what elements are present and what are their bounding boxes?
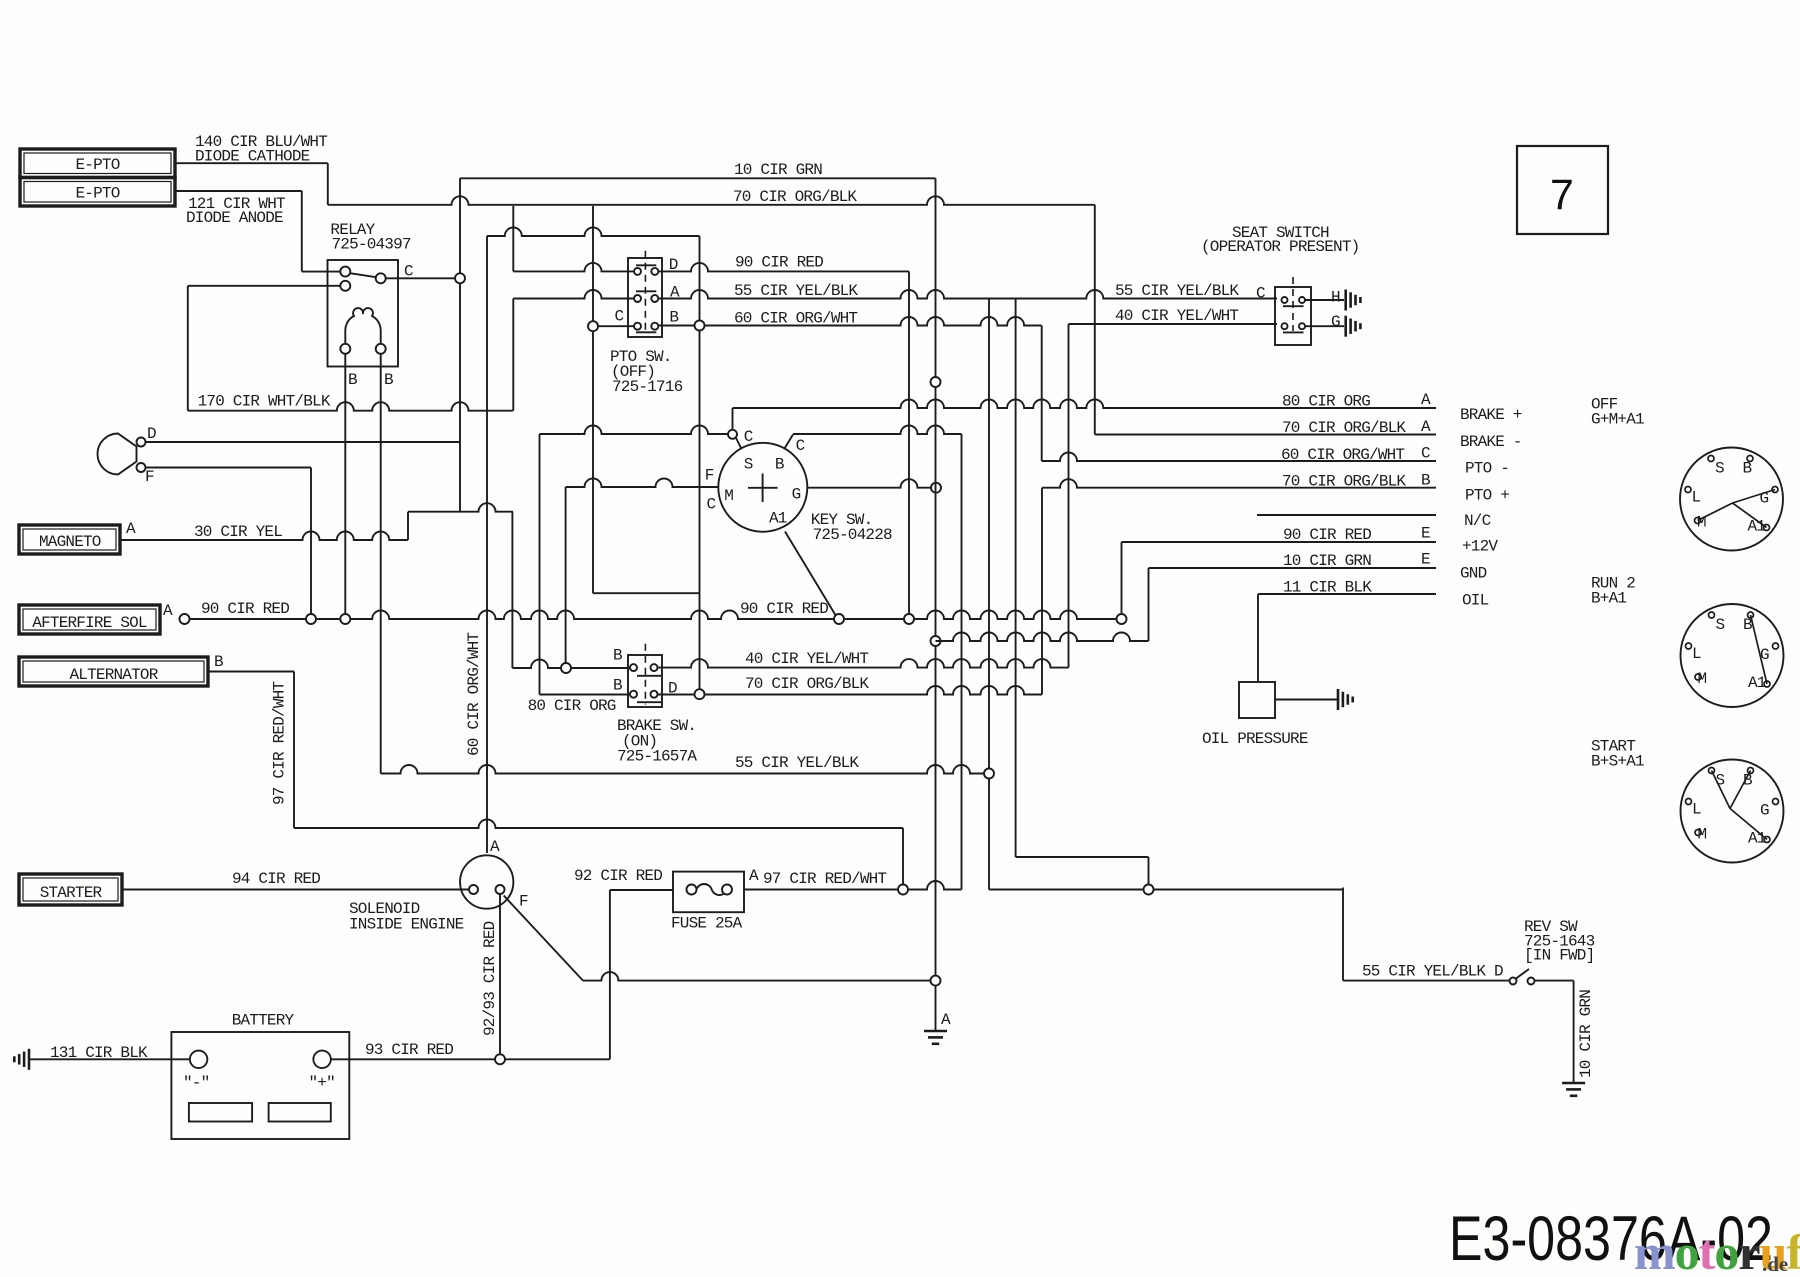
junction brake D xyxy=(695,689,705,699)
svg-text:DIODE ANODE: DIODE ANODE xyxy=(186,209,283,227)
brake SW terminal D bottom-right xyxy=(651,691,658,698)
svg-text:70 CIR ORG/BLK: 70 CIR ORG/BLK xyxy=(733,188,857,206)
terminal diode F xyxy=(137,463,146,472)
relay terminal NO xyxy=(340,281,350,291)
key A1 diagonal to 90 CIR RED xyxy=(785,532,836,617)
wire relay B right down to 55 CIR YEL/BLK xyxy=(380,354,382,774)
svg-text:C: C xyxy=(1421,445,1430,463)
brake contact bar top xyxy=(637,675,661,677)
connector AFTERFIRE SOL xyxy=(19,605,160,634)
svg-text:C: C xyxy=(796,437,805,455)
relay switch blade xyxy=(350,273,376,277)
svg-text:(OPERATOR PRESENT): (OPERATOR PRESENT) xyxy=(1201,238,1359,256)
svg-text:A: A xyxy=(1421,391,1431,409)
wire 97 CIR RED/WHT vertical xyxy=(293,672,295,829)
svg-text:S: S xyxy=(744,456,753,474)
wire 10 CIR GRN bus xyxy=(936,633,1149,642)
wire 55 CIR YEL/BLK lower bus xyxy=(381,765,984,774)
wire to rev switch xyxy=(1343,980,1509,982)
wire key M drop xyxy=(565,487,567,663)
fuse 25A box xyxy=(673,872,744,913)
svg-text:60 CIR ORG/WHT: 60 CIR ORG/WHT xyxy=(465,633,483,756)
wire 97 CIR RED/WHT horizontal xyxy=(294,820,903,829)
svg-text:90 CIR RED: 90 CIR RED xyxy=(740,600,828,618)
svg-text:A: A xyxy=(941,1011,951,1029)
junction 92/93 xyxy=(495,1054,505,1064)
wire vertical x961 xyxy=(961,434,963,890)
page number box xyxy=(1517,146,1608,234)
wire PTO D feed drop xyxy=(512,206,514,271)
svg-text:S: S xyxy=(1716,616,1725,634)
ground center bottom xyxy=(924,1030,947,1033)
wire 92/93 CIR RED vertical xyxy=(499,894,501,1055)
connector E-PTO (bottom) xyxy=(20,178,175,207)
relay 725-04397 box xyxy=(328,260,399,367)
junction ground A xyxy=(931,976,941,986)
wire diode D east xyxy=(146,441,461,443)
svg-text:M: M xyxy=(724,487,733,505)
relay coil terminal B right xyxy=(376,344,386,354)
relay coil terminal B left xyxy=(340,344,350,354)
svg-text:OIL: OIL xyxy=(1462,592,1489,610)
wire key C east segment xyxy=(793,426,962,435)
wire vertical x989 upper xyxy=(988,299,990,769)
wire 80 CIR ORG (BRAKE +) xyxy=(733,400,1437,409)
svg-text:+12V: +12V xyxy=(1462,538,1498,556)
wire magneto/M to brake switch xyxy=(512,660,634,669)
wire brake B lower feed xyxy=(540,694,635,696)
fuse terminal right xyxy=(722,885,732,895)
wire vertical x1042 lower (70 ORG/BLK) xyxy=(1041,488,1043,695)
wire relay lower terminal west leg xyxy=(188,285,341,287)
wire solenoid F diagonal xyxy=(504,896,583,981)
wire 40 CIR YEL/WHT bus xyxy=(658,659,1069,668)
svg-text:A: A xyxy=(1421,418,1431,436)
connector STARTER xyxy=(19,874,122,905)
svg-text:B: B xyxy=(775,456,784,474)
ground seat G xyxy=(1344,316,1347,337)
svg-text:70 CIR ORG/BLK: 70 CIR ORG/BLK xyxy=(745,675,869,693)
wire seat switch G row (40 CIR YEL/WHT) xyxy=(1069,323,1278,325)
svg-text:725-1716: 725-1716 xyxy=(612,378,683,396)
svg-text:97 CIR RED/WHT: 97 CIR RED/WHT xyxy=(271,682,289,805)
wire 92 CIR RED drop to battery feed xyxy=(609,890,611,1059)
junction x935 upper xyxy=(931,377,941,387)
svg-text:G+M+A1: G+M+A1 xyxy=(1591,411,1644,429)
junction 97 at x903 xyxy=(898,885,908,895)
wire 10 CIR GRN / ground vertical xyxy=(935,178,937,1031)
key switch 725-04228 body xyxy=(718,443,807,532)
wire to PTO SW D xyxy=(513,263,634,272)
key switch cross v xyxy=(762,474,764,503)
key C blade into circle xyxy=(736,438,741,449)
wire solenoid F to ground junction xyxy=(583,972,931,981)
svg-text:AFTERFIRE SOL: AFTERFIRE SOL xyxy=(32,614,147,632)
svg-text:[IN FWD]: [IN FWD] xyxy=(1524,947,1594,965)
svg-text:60 CIR ORG/WHT: 60 CIR ORG/WHT xyxy=(1281,446,1404,464)
wire vertical x593 xyxy=(592,206,594,593)
relay coil xyxy=(345,308,380,349)
svg-text:10 CIR GRN: 10 CIR GRN xyxy=(734,161,822,179)
wire 60 ORG/WHT row from PTO B xyxy=(658,317,1041,326)
svg-text:C: C xyxy=(615,308,624,326)
svg-text:B: B xyxy=(214,653,223,671)
wire vertical x1148 upper xyxy=(1148,568,1150,641)
svg-text:"-": "-" xyxy=(183,1074,209,1092)
svg-text:A: A xyxy=(163,602,173,620)
wire solenoid-A cross link xyxy=(487,228,700,237)
junction relay B on 90 CIR RED bus xyxy=(340,614,350,624)
svg-text:L: L xyxy=(1692,645,1701,663)
terminal key C xyxy=(728,430,737,439)
wire 60 CIR ORG/WHT (PTO -) xyxy=(1042,453,1436,462)
svg-text:OIL PRESSURE: OIL PRESSURE xyxy=(1202,730,1308,748)
wire 97 CIR RED/WHT east xyxy=(744,881,962,890)
svg-text:N/C: N/C xyxy=(1464,512,1491,530)
svg-text:E: E xyxy=(1421,525,1430,543)
svg-text:STARTER: STARTER xyxy=(40,884,103,902)
junction relay C xyxy=(455,273,465,283)
wire to PTO SW A xyxy=(513,290,634,298)
junction key G at x935 xyxy=(931,483,941,493)
seat switch terminal G xyxy=(1299,323,1305,329)
svg-text:C: C xyxy=(707,496,716,514)
svg-text:E: E xyxy=(1421,551,1430,569)
connector E-PTO (top) xyxy=(20,149,175,178)
svg-text:PTO -: PTO - xyxy=(1465,460,1509,478)
svg-text:80 CIR ORG: 80 CIR ORG xyxy=(528,697,616,715)
wire 55 CIR YEL/BLK drop to rev switch xyxy=(1342,888,1344,981)
wire 121 CIR WHT from E-PTO 2 xyxy=(175,190,302,192)
svg-text:E-PTO: E-PTO xyxy=(76,185,120,203)
seat contact bar bottom xyxy=(1283,331,1304,333)
connector MAGNETO xyxy=(19,525,120,554)
svg-text:93 CIR RED: 93 CIR RED xyxy=(365,1041,453,1059)
PTO SW terminal A right xyxy=(651,295,658,302)
wire diode F drop to 90 CIR RED xyxy=(310,468,312,615)
svg-text:A1: A1 xyxy=(1748,674,1766,692)
wire 30 CIR YEL step up xyxy=(407,512,409,540)
svg-text:D: D xyxy=(147,425,156,443)
svg-text:B: B xyxy=(613,647,622,665)
oil pressure switch box xyxy=(1239,682,1275,718)
wire brake to key C xyxy=(540,426,729,435)
wire 121 CIR WHT drop to relay xyxy=(301,191,303,272)
svg-text:90 CIR RED: 90 CIR RED xyxy=(1283,526,1371,544)
wire 30 CIR YEL upper segment xyxy=(408,503,513,512)
brake SW terminal B top-left xyxy=(630,664,637,671)
svg-text:B: B xyxy=(384,371,393,389)
junction diode F on 90 CIR RED bus xyxy=(306,614,316,624)
wire 30 CIR YEL xyxy=(120,532,408,541)
wire 55 link drop xyxy=(1148,857,1150,885)
svg-text:INSIDE ENGINE: INSIDE ENGINE xyxy=(349,916,464,934)
svg-text:10 CIR GRN: 10 CIR GRN xyxy=(1577,990,1595,1078)
svg-text:C: C xyxy=(744,428,753,446)
PTO SW terminal B left xyxy=(634,323,641,330)
svg-text:H: H xyxy=(1331,289,1340,307)
PTO contact bar D xyxy=(636,264,656,266)
wire 90 CIR RED (+12V) xyxy=(1122,541,1437,543)
svg-text:10 CIR GRN: 10 CIR GRN xyxy=(1283,552,1371,570)
battery plate right xyxy=(269,1103,331,1122)
battery box xyxy=(171,1032,349,1139)
PTO SW terminal A left xyxy=(634,295,641,302)
wire alternator B xyxy=(208,671,294,673)
solenoid terminal right xyxy=(496,885,505,894)
wire 11 CIR BLK drop to oil pressure xyxy=(1257,594,1259,682)
junction PTO C xyxy=(588,321,598,331)
wire vertical x699 xyxy=(699,236,701,695)
wire solenoid A vertical xyxy=(486,236,488,853)
seat switch box xyxy=(1275,287,1311,345)
wire diode F east xyxy=(146,467,312,469)
svg-text:A: A xyxy=(126,520,136,538)
svg-text:PTO +: PTO + xyxy=(1465,487,1509,505)
junction 55 bus to x989 xyxy=(984,769,994,779)
terminal diode D xyxy=(137,438,146,447)
svg-text:A: A xyxy=(749,867,759,885)
PTO SW terminal D left xyxy=(634,268,641,275)
ignition diagram RUN 2 xyxy=(1681,604,1784,707)
svg-text:170 CIR WHT/BLK: 170 CIR WHT/BLK xyxy=(198,393,331,411)
key switch cross h xyxy=(748,487,778,489)
wire 90 CIR RED bus xyxy=(190,611,1122,620)
svg-text:90 CIR RED: 90 CIR RED xyxy=(201,600,289,618)
svg-text:F: F xyxy=(145,468,154,486)
svg-text:725-04228: 725-04228 xyxy=(813,526,892,544)
wire seat H to ground xyxy=(1305,299,1344,301)
battery terminal minus xyxy=(190,1051,208,1069)
wire oil pressure to ground xyxy=(1275,699,1337,701)
brake switch 725-1657A box xyxy=(628,655,662,707)
solenoid terminal left xyxy=(469,885,478,894)
junction 10 CIR GRN bus xyxy=(931,636,941,646)
wire 55 CIR YEL/BLK to rev switch xyxy=(989,889,1343,891)
wire 10 CIR GRN top bus xyxy=(460,177,936,179)
svg-text:L: L xyxy=(1692,489,1701,507)
wire into relay terminal xyxy=(302,271,341,273)
wire vertical x1121 xyxy=(1121,542,1123,614)
svg-text:L: L xyxy=(1692,801,1701,819)
svg-text:55 CIR YEL/BLK: 55 CIR YEL/BLK xyxy=(734,282,858,300)
svg-text:725-1657A: 725-1657A xyxy=(617,748,697,766)
brake contact bar bottom xyxy=(637,701,661,703)
svg-text:G: G xyxy=(1331,313,1340,331)
ignition diagram START xyxy=(1681,760,1784,863)
wire 55 link upper xyxy=(1016,856,1149,858)
terminal afterfire A xyxy=(180,614,190,624)
wire 131 CIR BLK xyxy=(29,1058,190,1060)
svg-text:A1: A1 xyxy=(1748,830,1766,848)
svg-text:G: G xyxy=(792,486,801,504)
rev switch terminal left xyxy=(1510,978,1517,985)
svg-text:F: F xyxy=(705,467,714,485)
battery terminal plus xyxy=(313,1051,331,1069)
wire 92 CIR RED to fuse xyxy=(610,889,673,891)
svg-text:B: B xyxy=(613,677,622,695)
relay terminal NC xyxy=(340,267,350,277)
svg-text:F: F xyxy=(519,893,528,911)
connector ALTERNATOR xyxy=(19,657,208,686)
wire vertical x1094 xyxy=(1094,205,1096,435)
svg-text:A: A xyxy=(490,838,500,856)
svg-text:55 CIR YEL/BLK: 55 CIR YEL/BLK xyxy=(1115,282,1239,300)
wire vertical x1041 upper (60 ORG/WHT) xyxy=(1041,326,1043,462)
svg-text:.de: .de xyxy=(1762,1252,1788,1272)
wire vertical x989 lower xyxy=(988,779,990,890)
key B diagonal xyxy=(785,435,794,449)
wire brake-keyC vertical xyxy=(539,434,541,695)
svg-text:B: B xyxy=(669,309,678,327)
fuse terminal left xyxy=(687,885,697,895)
wire link 11 CIR BLK to x699 xyxy=(593,592,700,594)
svg-text:G: G xyxy=(1760,802,1769,820)
svg-text:60 CIR ORG/WHT: 60 CIR ORG/WHT xyxy=(734,310,857,328)
wire 90 CIR RED drop x909 xyxy=(908,271,910,614)
fuse element xyxy=(697,884,727,895)
seat contact bar top xyxy=(1283,305,1304,307)
svg-text:S: S xyxy=(1715,460,1724,478)
svg-text:55 CIR YEL/BLK: 55 CIR YEL/BLK xyxy=(735,754,859,772)
svg-text:MAGNETO: MAGNETO xyxy=(39,533,101,551)
wire 94 CIR RED xyxy=(122,889,469,891)
ignition diagram OFF xyxy=(1680,448,1783,551)
diode symbol xyxy=(97,434,136,475)
svg-text:B+A1: B+A1 xyxy=(1591,590,1626,608)
wire relay C to junction xyxy=(386,277,455,279)
svg-text:FUSE 25A: FUSE 25A xyxy=(671,915,743,933)
PTO switch actuator dashed line xyxy=(644,251,646,330)
wire vertical relay-C net xyxy=(459,178,461,511)
svg-text:A1: A1 xyxy=(769,510,787,528)
svg-text:90 CIR RED: 90 CIR RED xyxy=(735,254,823,272)
wire 93 CIR RED xyxy=(331,1058,610,1060)
battery plate left xyxy=(189,1103,252,1122)
svg-text:B: B xyxy=(1421,472,1430,490)
PTO SW terminal D right xyxy=(651,268,658,275)
ground oil pressure xyxy=(1337,689,1340,710)
svg-text:94 CIR RED: 94 CIR RED xyxy=(232,870,320,888)
svg-text:"+": "+" xyxy=(309,1074,335,1092)
wire 10 CIR GRN drop to ground xyxy=(1573,981,1575,1083)
svg-text:BRAKE +: BRAKE + xyxy=(1460,406,1522,424)
seat switch terminal C xyxy=(1282,297,1288,303)
svg-text:80 CIR ORG: 80 CIR ORG xyxy=(1282,393,1370,411)
wire 140 CIR BLU/WHT drop xyxy=(327,163,329,205)
svg-text:B: B xyxy=(1743,460,1752,478)
wire 70 CIR ORG/BLK (PTO +) xyxy=(1042,479,1436,488)
wire 97 CIR RED/WHT drop to fuse row xyxy=(902,828,904,885)
wire 70 CIR ORG/BLK bus from brake D xyxy=(658,686,1043,695)
PTO contact bar B xyxy=(636,331,656,333)
svg-text:BRAKE -: BRAKE - xyxy=(1460,433,1522,451)
junction magneto-M-brake xyxy=(561,663,571,673)
svg-text:7: 7 xyxy=(1550,171,1574,219)
svg-text:725-04397: 725-04397 xyxy=(332,236,411,254)
svg-text:B+S+A1: B+S+A1 xyxy=(1591,753,1644,771)
brake SW terminal B bottom-left xyxy=(630,691,637,698)
relay terminal common xyxy=(376,273,386,283)
svg-text:92 CIR RED: 92 CIR RED xyxy=(574,867,662,885)
wire 30 CIR YEL drop to key M net xyxy=(511,512,513,668)
svg-text:M: M xyxy=(1698,670,1707,688)
svg-text:E-PTO: E-PTO xyxy=(76,156,120,174)
svg-text:M: M xyxy=(1698,826,1707,844)
svg-text:30 CIR YEL: 30 CIR YEL xyxy=(194,523,282,541)
wire seat G to ground xyxy=(1305,325,1344,327)
junction x699 on PTO B row xyxy=(695,321,705,331)
wire 140 CIR BLU/WHT from E-PTO 1 xyxy=(175,162,328,164)
wire 90 CIR RED row xyxy=(658,263,909,272)
wire 11 CIR BLK (OIL) xyxy=(1258,593,1436,595)
svg-text:92/93 CIR RED: 92/93 CIR RED xyxy=(481,921,499,1036)
svg-text:C: C xyxy=(1256,285,1265,303)
wire PTO C to B terminal xyxy=(597,325,634,327)
wire 170 CIR WHT/BLK xyxy=(188,402,513,411)
rev switch terminal right xyxy=(1528,978,1535,985)
junction key A1 on 90 CIR RED bus xyxy=(834,614,844,624)
wire relay B left down to 90 CIR RED bus xyxy=(344,354,346,614)
junction 55 at x1148 xyxy=(1144,885,1154,895)
svg-text:11 CIR BLK: 11 CIR BLK xyxy=(1283,579,1372,597)
seat switch terminal H xyxy=(1299,297,1305,303)
wire 10 CIR GRN (GND) xyxy=(1149,567,1437,569)
PTO SW terminal B right xyxy=(651,323,658,330)
svg-text:40 CIR YEL/WHT: 40 CIR YEL/WHT xyxy=(1115,307,1238,325)
svg-text:70 CIR ORG/BLK: 70 CIR ORG/BLK xyxy=(1282,419,1406,437)
PTO contact bar A xyxy=(636,290,656,292)
ground seat H xyxy=(1344,290,1347,311)
svg-text:70 CIR ORG/BLK: 70 CIR ORG/BLK xyxy=(1282,473,1406,491)
svg-text:97 CIR RED/WHT: 97 CIR RED/WHT xyxy=(763,870,886,888)
brake SW terminal top-right xyxy=(651,664,658,671)
wire 70 CIR ORG/BLK (BRAKE -) xyxy=(1095,434,1436,436)
seat switch dashed line xyxy=(1292,277,1294,331)
wire N/C xyxy=(1257,514,1436,516)
wire 55 CIR YEL/BLK row to seat switch xyxy=(658,290,1277,298)
wire key G row to junction xyxy=(807,479,931,488)
svg-text:GND: GND xyxy=(1460,565,1487,583)
wire key C up to 80 CIR ORG xyxy=(732,408,734,430)
svg-text:40 CIR YEL/WHT: 40 CIR YEL/WHT xyxy=(745,650,868,668)
junction x909 on 90 CIR RED bus xyxy=(904,614,914,624)
junction +12V on 90 CIR RED bus xyxy=(1117,614,1127,624)
wire rev switch east xyxy=(1535,980,1574,982)
wire key M row xyxy=(566,479,719,488)
wire 70 CIR ORG/BLK top bus xyxy=(328,196,1095,205)
wire PTO A feed drop xyxy=(512,299,514,411)
svg-text:ALTERNATOR: ALTERNATOR xyxy=(70,666,159,684)
rev switch blade xyxy=(1516,969,1529,979)
svg-text:B: B xyxy=(348,371,357,389)
seat switch terminal in xyxy=(1282,323,1288,329)
brake switch dashed line xyxy=(644,644,646,705)
PTO switch 725-1716 box xyxy=(628,258,662,337)
ground battery minus xyxy=(28,1049,31,1070)
ground rev switch xyxy=(1562,1082,1585,1085)
wire vertical x1015 xyxy=(1015,299,1017,858)
svg-text:55 CIR YEL/BLK D: 55 CIR YEL/BLK D xyxy=(1362,963,1503,981)
solenoid xyxy=(460,855,513,908)
wire vertical x1068 xyxy=(1068,324,1070,668)
svg-text:BATTERY: BATTERY xyxy=(232,1012,295,1030)
